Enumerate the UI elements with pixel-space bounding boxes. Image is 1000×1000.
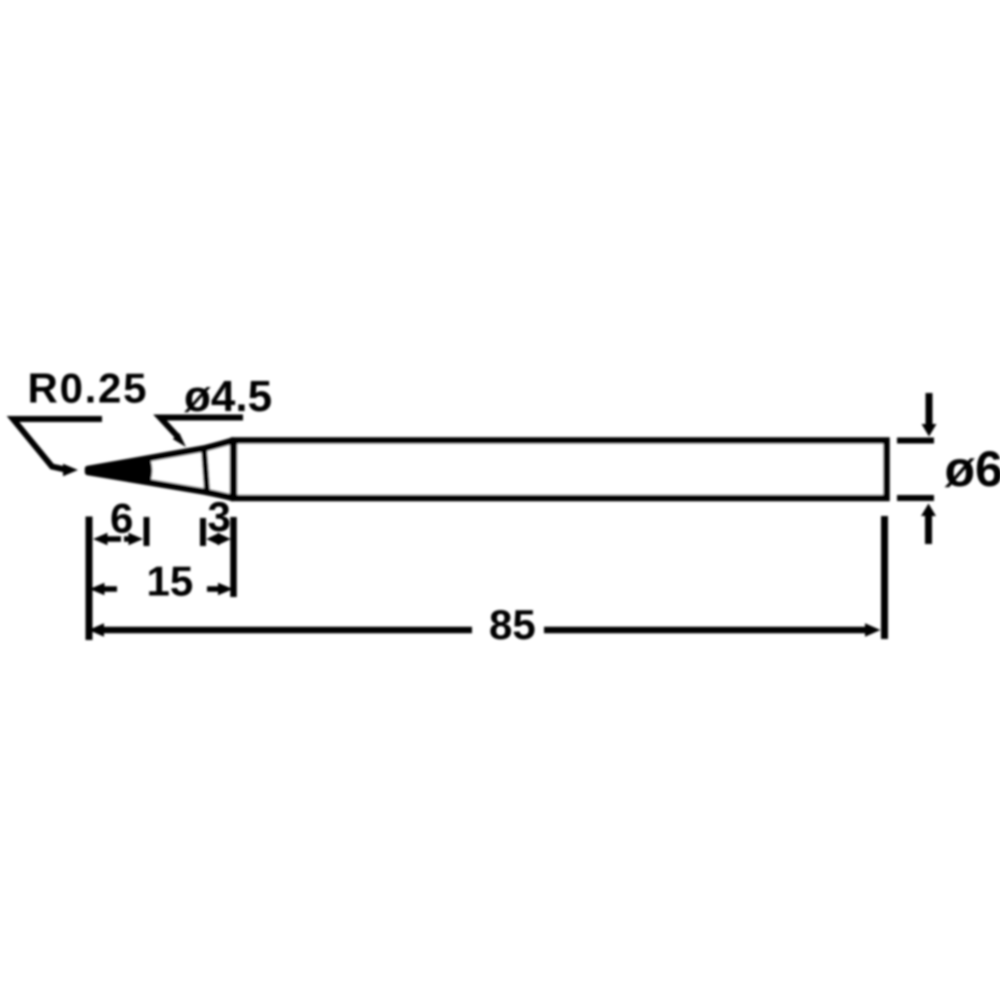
dim 6 arrows xyxy=(103,536,121,542)
dim 85 right arrowhead xyxy=(865,623,881,637)
svg-text:6: 6 xyxy=(110,495,133,542)
svg-text:ø6: ø6 xyxy=(945,441,1000,497)
dim 3 arrows xyxy=(206,533,219,546)
svg-text:ø4.5: ø4.5 xyxy=(184,372,272,421)
svg-text:85: 85 xyxy=(489,601,536,648)
leader R0.25 arrowhead xyxy=(63,464,78,476)
leader ø4.5 xyxy=(160,418,243,438)
dim 85 line right segment xyxy=(544,627,869,634)
extension line top right xyxy=(897,438,934,444)
extension line bottom right xyxy=(897,495,934,501)
tick left end of 3 dim xyxy=(200,518,206,546)
divider line (ø4.5 section) xyxy=(204,448,207,490)
extension line left (at tip) xyxy=(86,517,93,641)
dim 15 arrows xyxy=(101,586,117,592)
cone outline xyxy=(88,441,233,499)
leader R0.25 xyxy=(13,419,102,470)
svg-text:R0.25: R0.25 xyxy=(28,365,147,412)
up arrow (ø6 bottom) xyxy=(925,511,932,544)
tick right end of 6 dim xyxy=(144,517,150,546)
dim 85 line left segment xyxy=(100,627,472,634)
down arrow (ø6 top) xyxy=(926,393,933,428)
svg-text:15: 15 xyxy=(147,558,194,605)
solid tip fill xyxy=(88,459,149,482)
dim 85 left arrowhead xyxy=(89,623,105,637)
rod body (ø6 shaft) xyxy=(234,441,887,499)
extension line right end of 3/15 dims xyxy=(230,517,237,597)
leader ø4.5 arrowhead xyxy=(173,433,186,447)
svg-text:3: 3 xyxy=(208,493,231,540)
extension line right (85 dim) xyxy=(881,516,888,639)
